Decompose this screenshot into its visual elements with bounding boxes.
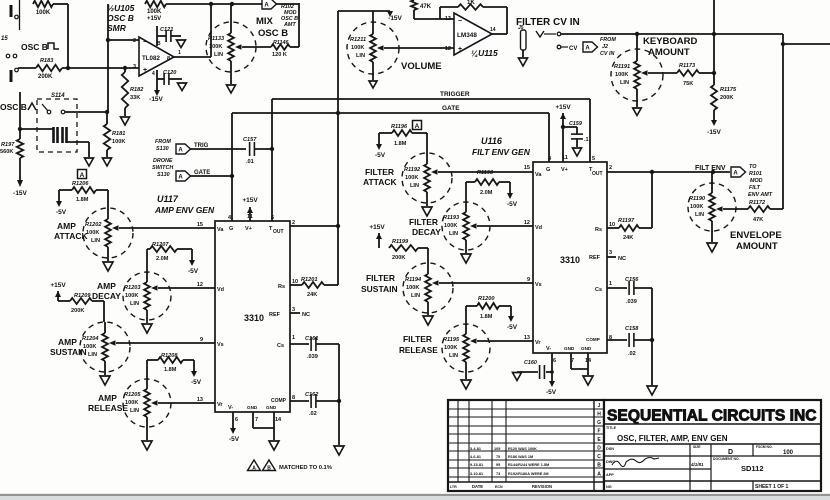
label FILTER SUSTAIN: [361, 273, 398, 294]
svg-text:−: −: [143, 39, 147, 46]
wire R1175 to -15V: [711, 110, 717, 126]
svg-text:ATTACK: ATTACK: [363, 177, 397, 187]
svg-text:Cs: Cs: [277, 343, 284, 349]
svg-text:MIX: MIX: [256, 16, 274, 27]
resistor R1206 1.8M: [72, 181, 96, 203]
capacitor C156 .039: [607, 277, 652, 305]
svg-text:TITLE: TITLE: [606, 426, 617, 430]
label VOLUME: [401, 61, 442, 72]
label MIX OSC B: [256, 16, 288, 39]
svg-text:AMP: AMP: [98, 393, 117, 403]
svg-text:FILTER: FILTER: [366, 273, 395, 283]
svg-text:Cs: Cs: [595, 287, 602, 293]
svg-text:3-4-81: 3-4-81: [470, 447, 481, 451]
wire caps to ground: [337, 344, 341, 445]
svg-text:GND: GND: [564, 346, 575, 351]
svg-text:S114: S114: [51, 93, 65, 99]
ground (C121): [177, 40, 186, 48]
svg-text:SUSTAIN: SUSTAIN: [361, 284, 398, 294]
wire R1207 to pot: [147, 249, 150, 272]
svg-text:V+: V+: [245, 226, 252, 232]
resistor R1201 24K: [290, 277, 338, 298]
resistor R1198 2.0M: [475, 170, 499, 196]
label FILTER RELEASE: [399, 334, 438, 355]
svg-text:LIN: LIN: [620, 80, 629, 86]
svg-text:Vd: Vd: [535, 225, 542, 231]
node OSC B square label: [21, 42, 59, 52]
wire U116 GND pins: [571, 353, 588, 375]
svg-text:.039: .039: [307, 354, 318, 360]
svg-text:R1198: R1198: [477, 170, 494, 176]
svg-text:100K: 100K: [209, 44, 222, 50]
power -15V (R197): [13, 190, 27, 197]
svg-text:.02: .02: [628, 351, 636, 357]
svg-text:A: A: [585, 46, 590, 52]
svg-text:D: D: [728, 449, 733, 456]
ground (transformer): [85, 158, 94, 166]
svg-text:OSC B: OSC B: [21, 42, 48, 52]
wire U116 T to TRIGGER: [589, 99, 591, 162]
svg-text:1: 1: [609, 281, 612, 287]
svg-text:-5V: -5V: [546, 389, 557, 396]
resistor R181 100K: [104, 112, 126, 157]
svg-text:H: H: [597, 412, 601, 418]
svg-text:-5V: -5V: [56, 209, 67, 216]
potentiometer R1204 100K LIN amp sustain: [80, 322, 130, 375]
wire R1198 to -5V: [499, 182, 518, 208]
svg-text:7: 7: [255, 417, 258, 423]
net arrow A GATE from drone switch S130: [152, 158, 232, 181]
svg-text:100K: 100K: [406, 285, 419, 291]
wire R1205 wiper to U117 Vr: [158, 402, 215, 404]
svg-text:100K: 100K: [444, 223, 457, 229]
jack switch CV: [536, 31, 577, 52]
svg-text:+15V: +15V: [50, 282, 66, 289]
capacitor C160 .1: [517, 360, 554, 379]
svg-text:MATCHED TO 0.1%: MATCHED TO 0.1%: [279, 465, 332, 471]
net arrow A to R101: [731, 167, 746, 177]
switch S115 plug contact (top): [11, 5, 18, 19]
resistor R1200 1.8M: [477, 296, 499, 320]
svg-text:R1173: R1173: [679, 63, 696, 69]
svg-text:R1193: R1193: [443, 215, 460, 221]
ground (R1193): [461, 254, 471, 263]
svg-text:-5V: -5V: [375, 152, 386, 159]
potentiometer R1133 100K LIN: [206, 4, 256, 84]
svg-text:.01: .01: [246, 159, 254, 165]
svg-text:A: A: [178, 148, 183, 154]
wire LM348 output: [440, 19, 507, 34]
wire transformer left: [18, 92, 53, 139]
svg-text:FROM: FROM: [600, 37, 616, 43]
svg-text:4/1/81: 4/1/81: [690, 462, 704, 467]
wire R1200 to pot: [466, 306, 477, 324]
svg-text:-5V: -5V: [229, 436, 240, 443]
svg-text:13: 13: [524, 335, 530, 341]
wire R1206 to -5V: [56, 190, 72, 216]
power +15V (R1209): [50, 282, 66, 301]
svg-text:OUT: OUT: [273, 229, 284, 235]
svg-text:+: +: [143, 67, 147, 74]
svg-text:100K: 100K: [615, 72, 628, 78]
node A box (R1206): [78, 170, 87, 179]
wire transformer right to ground: [67, 142, 89, 157]
svg-text:3310: 3310: [560, 255, 580, 265]
svg-text:A: A: [264, 3, 269, 9]
label quarter U115: [471, 48, 498, 58]
svg-text:1: 1: [178, 50, 181, 56]
connector J5: [518, 25, 526, 57]
svg-text:100K: 100K: [86, 230, 99, 236]
svg-text:200K: 200K: [392, 255, 405, 261]
svg-text:12: 12: [524, 220, 530, 226]
svg-text:SIZE: SIZE: [693, 445, 701, 449]
svg-text:-5V: -5V: [507, 201, 518, 208]
potentiometer R1202 100K LIN amp attack: [83, 208, 133, 261]
svg-text:R1195: R1195: [443, 337, 460, 343]
svg-text:G: G: [597, 420, 601, 426]
svg-text:V+: V+: [561, 167, 568, 173]
wire volume top bracket: [336, 11, 390, 285]
capacitor C161 .039: [290, 336, 339, 360]
svg-text:LIN: LIN: [88, 352, 97, 358]
svg-text:100K: 100K: [83, 344, 96, 350]
wire R1173 to bus: [699, 71, 716, 75]
power -15V (volume): [387, 11, 403, 22]
wire R1208 to -5V: [183, 360, 202, 386]
svg-text:R120 WAS 100K: R120 WAS 100K: [508, 447, 537, 451]
label ENVELOPE AMOUNT: [730, 230, 782, 252]
svg-text:R1206: R1206: [72, 181, 89, 187]
svg-text:1.8M: 1.8M: [164, 367, 177, 373]
svg-text:-15V: -15V: [707, 129, 721, 136]
svg-text:AMP: AMP: [97, 281, 116, 291]
svg-text:D: D: [597, 446, 601, 452]
svg-text:1: 1: [292, 335, 295, 341]
capacitor C158 .02: [607, 326, 652, 357]
svg-text:B: B: [597, 463, 601, 469]
wire TRIGGER bus: [270, 91, 590, 221]
svg-text:DOCUMENT NO.: DOCUMENT NO.: [713, 457, 740, 461]
ground (C160): [513, 373, 522, 381]
svg-text:FILTER: FILTER: [403, 334, 432, 344]
svg-text:COMP: COMP: [271, 398, 287, 404]
svg-text:AMP ENV GEN: AMP ENV GEN: [154, 205, 215, 215]
svg-text:15: 15: [1, 36, 8, 42]
svg-text:NC: NC: [618, 256, 626, 262]
svg-text:200K: 200K: [38, 74, 53, 80]
svg-text:DSN: DSN: [606, 447, 614, 451]
svg-text:R186 WAS 1M: R186 WAS 1M: [508, 455, 533, 459]
svg-text:VOLUME: VOLUME: [401, 61, 442, 72]
potentiometer R1192 100K LIN filter attack: [402, 153, 452, 206]
potentiometer R1195 100K LIN filter release: [442, 324, 490, 379]
svg-text:R1133: R1133: [208, 36, 225, 42]
svg-text:AMOUNT: AMOUNT: [736, 241, 778, 252]
svg-text:R1203: R1203: [124, 285, 141, 291]
svg-text:KEYBOARD: KEYBOARD: [643, 36, 698, 47]
node NC (U116 REF): [607, 256, 626, 262]
power -15V (R1175): [707, 129, 721, 136]
ground arrow (R1191): [633, 108, 642, 116]
svg-text:.1: .1: [584, 137, 589, 143]
wire R1196 to -5V: [375, 133, 392, 159]
wire pin2 vertical: [106, 4, 139, 112]
svg-text:14: 14: [490, 27, 496, 33]
op-amp U116 3310 envelope chip: [524, 155, 615, 364]
svg-text:3310: 3310: [244, 313, 264, 323]
svg-text:S130: S130: [156, 146, 169, 152]
svg-text:SD112: SD112: [741, 464, 764, 473]
svg-text:9-15-81: 9-15-81: [470, 463, 483, 467]
svg-text:R1200: R1200: [478, 296, 495, 302]
svg-text:.039: .039: [626, 299, 637, 305]
svg-text:9: 9: [527, 277, 530, 283]
svg-text:OSC B: OSC B: [281, 16, 298, 22]
svg-text:FILTER CV IN: FILTER CV IN: [516, 17, 580, 28]
svg-text:V-: V-: [546, 346, 551, 352]
ground (R1192): [422, 207, 432, 216]
svg-text:LIN: LIN: [356, 53, 365, 59]
switch S115 plug contact (bottom): [11, 68, 18, 82]
svg-text:R144/R244 WERE 1.5M: R144/R244 WERE 1.5M: [508, 463, 549, 467]
wire 100K to R183 node: [53, 4, 68, 68]
wire U117 out: [290, 225, 338, 227]
potentiometer R1191 100K LIN keyboard: [611, 34, 663, 107]
svg-text:GND: GND: [247, 405, 258, 410]
node R102 MOD OSC B AMT labels: [281, 4, 298, 28]
resistor R1173 75K: [677, 63, 699, 87]
wire TL082 output: [174, 4, 211, 57]
svg-text:+15V: +15V: [369, 224, 385, 231]
svg-text:R101: R101: [749, 171, 762, 177]
svg-text:100K: 100K: [444, 345, 457, 351]
svg-text:200K: 200K: [720, 95, 733, 101]
resistor 100K (top left): [33, 1, 53, 16]
wire right bus: [714, 34, 830, 209]
wire U116 out: [607, 170, 730, 174]
svg-text:SEQUENTIAL CIRCUITS INC: SEQUENTIAL CIRCUITS INC: [607, 407, 817, 424]
wire jack to keyboard pot: [561, 32, 716, 36]
wire R1192 wiper to U116 Va: [438, 171, 533, 173]
svg-text:U116: U116: [481, 136, 503, 146]
svg-text:LIN: LIN: [130, 408, 139, 414]
wire R1196 to pot: [412, 133, 427, 153]
svg-text:100K: 100K: [125, 400, 138, 406]
node S115 label: [1, 36, 8, 42]
svg-text:AMP: AMP: [57, 221, 76, 231]
svg-text:GND: GND: [581, 346, 592, 351]
svg-text:DECAY: DECAY: [412, 227, 441, 237]
node FROM J2 CV IN labels: [600, 37, 616, 57]
ground arrow (R1211): [369, 81, 377, 88]
svg-text:15: 15: [524, 165, 530, 171]
svg-text:APP: APP: [606, 473, 614, 477]
svg-text:Vr: Vr: [535, 340, 541, 346]
svg-text:Vd: Vd: [217, 287, 224, 293]
net FILT ENV label: [695, 165, 726, 172]
label FILTER DECAY: [409, 217, 441, 237]
ground (U117 GND): [269, 441, 279, 450]
svg-text:-5V: -5V: [191, 379, 202, 386]
svg-text:COMP: COMP: [586, 337, 600, 342]
svg-text:4: 4: [152, 71, 155, 77]
ground (R181): [103, 158, 112, 166]
svg-text:GND: GND: [266, 405, 277, 410]
svg-text:DATE: DATE: [472, 484, 483, 489]
svg-text:Rs: Rs: [278, 284, 285, 290]
svg-text:RELEASE: RELEASE: [399, 346, 438, 355]
svg-text:U117: U117: [157, 194, 179, 204]
svg-text:560K: 560K: [0, 149, 13, 155]
ground (R1204): [100, 376, 110, 385]
svg-text:R1199: R1199: [392, 239, 409, 245]
capacitor C157 .01: [243, 137, 272, 165]
svg-text:AMT: AMT: [283, 22, 296, 28]
svg-text:SHEET 1 OF 1: SHEET 1 OF 1: [755, 484, 789, 490]
svg-text:-5V: -5V: [507, 324, 518, 331]
svg-text:95: 95: [496, 463, 500, 467]
wire U117 V- to -5V: [229, 412, 240, 443]
wire R1191 wiper to R1173: [648, 72, 677, 74]
svg-text:MOD: MOD: [750, 178, 763, 184]
svg-text:TRIGGER: TRIGGER: [440, 91, 470, 98]
wire R1198 to pot: [466, 182, 475, 202]
svg-text:ENVELOPE: ENVELOPE: [730, 230, 782, 241]
svg-text:1.8M: 1.8M: [480, 314, 493, 320]
op-amp U115 LM348: [445, 13, 496, 55]
svg-text:100K: 100K: [36, 10, 51, 16]
svg-text:LIN: LIN: [695, 212, 704, 218]
resistor R183 200K: [36, 58, 62, 80]
potentiometer R1211 100K LIN volume: [347, 11, 399, 80]
svg-text:+15V: +15V: [242, 197, 258, 204]
svg-text:100: 100: [783, 450, 794, 456]
svg-text:B: B: [157, 41, 161, 47]
node NC (U117 REF): [290, 312, 310, 318]
label AMP ATTACK: [54, 221, 88, 241]
svg-text:100K: 100K: [690, 204, 703, 210]
svg-text:OSC B: OSC B: [107, 13, 134, 23]
svg-text:LIN: LIN: [411, 293, 420, 299]
svg-text:F: F: [597, 429, 600, 435]
svg-text:C: C: [597, 454, 601, 460]
svg-text:A: A: [178, 175, 183, 181]
svg-text:Va: Va: [535, 172, 542, 178]
label U116 FILT ENV GEN: [472, 136, 531, 157]
svg-text:C162: C162: [305, 392, 319, 398]
svg-text:J: J: [598, 403, 601, 409]
svg-text:R102: R102: [281, 4, 294, 10]
svg-text:R1204: R1204: [82, 336, 99, 342]
svg-text:MOD: MOD: [284, 10, 297, 16]
potentiometer R1193 100K LIN filter decay: [442, 202, 490, 253]
wire R1193 wiper to U116 Vd: [477, 225, 533, 227]
svg-text:C156: C156: [625, 277, 639, 283]
capacitor C120: [157, 70, 182, 90]
svg-text:−: −: [458, 18, 462, 25]
svg-text:½U105: ½U105: [107, 3, 135, 13]
svg-text:-5V: -5V: [188, 268, 199, 275]
svg-text:C158: C158: [625, 326, 639, 332]
ground (R1194): [423, 316, 433, 325]
resistor R197 560K: [0, 139, 23, 158]
resistor R1175 200K: [711, 85, 737, 110]
wire R1199 to pot: [418, 248, 428, 263]
svg-text:105: 105: [494, 447, 500, 451]
svg-text:100K: 100K: [147, 9, 162, 15]
resistor 100K (+15V pullup): [145, 1, 166, 22]
wire R1190 wiper to R1172: [723, 208, 748, 210]
svg-text:6: 6: [235, 417, 238, 423]
resistor 47K: [411, 0, 440, 19]
svg-text:Rs: Rs: [595, 227, 602, 233]
svg-text:FILT ENV GEN: FILT ENV GEN: [472, 147, 531, 157]
svg-text:12: 12: [445, 46, 451, 52]
svg-text:R1205: R1205: [124, 392, 141, 398]
svg-text:24K: 24K: [307, 292, 317, 298]
svg-text:A: A: [733, 171, 738, 177]
ground (U116 caps): [647, 386, 657, 395]
ground (R1133): [227, 85, 236, 93]
ground (C120): [178, 83, 187, 91]
svg-text:R1172: R1172: [749, 200, 766, 206]
svg-text:73: 73: [496, 472, 500, 476]
svg-text:100K: 100K: [351, 45, 364, 51]
svg-text:1.8M: 1.8M: [394, 141, 407, 147]
svg-text:5: 5: [592, 156, 595, 162]
label AMP DECAY: [92, 281, 121, 301]
svg-text:NG: NG: [606, 485, 612, 489]
label AMP SUSTAIN: [50, 337, 87, 357]
svg-text:33K: 33K: [130, 95, 140, 101]
capacitor C159 .1: [563, 121, 589, 147]
ground (U116 GND): [583, 376, 593, 385]
svg-text:+15V: +15V: [555, 104, 571, 111]
svg-text:-15V: -15V: [149, 96, 163, 103]
svg-text:CV: CV: [569, 46, 577, 52]
svg-text:LIN: LIN: [410, 183, 419, 189]
svg-text:R183: R183: [40, 58, 54, 64]
resistor R1196 1.8M: [391, 121, 422, 148]
wire U116 caps ground rail: [650, 288, 654, 385]
net arrow A to R102: [262, 0, 299, 9]
svg-text:-15V: -15V: [13, 190, 27, 197]
svg-text:2.0M: 2.0M: [156, 256, 169, 262]
wire R197 to -15V: [17, 158, 23, 187]
svg-text:-15V: -15V: [388, 15, 402, 22]
potentiometer R1205 100K LIN amp release: [123, 379, 171, 440]
svg-text:SMR: SMR: [107, 23, 127, 33]
svg-text:ECN: ECN: [495, 485, 503, 489]
svg-text:4-6-81: 4-6-81: [470, 455, 481, 459]
svg-text:G: G: [229, 226, 233, 232]
ground arrow (J5): [519, 58, 528, 66]
wire U117 GND pins: [253, 412, 274, 440]
svg-text:LM348: LM348: [457, 32, 477, 39]
transformer S114 core: [54, 127, 67, 143]
svg-text:LIN: LIN: [130, 301, 139, 307]
svg-text:14: 14: [275, 417, 282, 423]
svg-text:R197: R197: [1, 142, 15, 148]
svg-text:FSCM NO.: FSCM NO.: [756, 445, 773, 449]
resistor R1208 1.8M: [158, 353, 183, 373]
switch S114: [37, 93, 77, 152]
wire R1202 wiper to U117 Va: [119, 227, 215, 229]
label AMP RELEASE: [88, 393, 128, 413]
svg-text:Vr: Vr: [217, 402, 223, 408]
svg-text:100K: 100K: [112, 139, 125, 145]
